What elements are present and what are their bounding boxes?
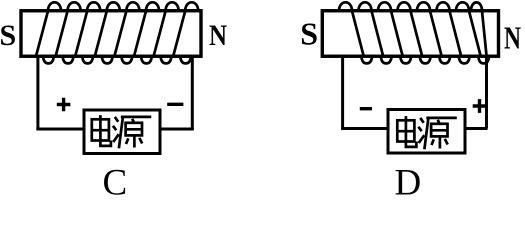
solenoid C core bar <box>21 11 201 57</box>
coil D turn 8 <box>471 2 487 55</box>
plus terminal C <box>57 98 71 112</box>
power supply label 电源 (D) <box>397 116 457 149</box>
coil C turn 3 <box>75 2 100 63</box>
power supply box D <box>388 110 465 154</box>
wire: C bottom left segment <box>36 128 84 131</box>
coil D turn 6 <box>437 2 470 63</box>
svg-text:N: N <box>209 19 227 52</box>
svg-text:D: D <box>395 163 422 197</box>
源 <box>115 117 118 122</box>
pole label N (left magnet) <box>209 19 227 52</box>
svg-text:C: C <box>102 163 127 197</box>
coil C turn 4 <box>95 2 120 63</box>
svg-text:S: S <box>0 19 16 52</box>
coil D turn 7 <box>456 2 489 63</box>
plus terminal D <box>473 99 487 113</box>
coil C turn 6 <box>134 2 159 63</box>
coil D turn 2 <box>359 2 392 63</box>
svg-text:N: N <box>504 20 521 56</box>
power supply box C <box>84 110 160 154</box>
wire: C left lead <box>36 56 39 130</box>
wire: D bottom right segment <box>465 127 488 130</box>
pole label S (left magnet) <box>0 19 16 52</box>
svg-text:S: S <box>300 16 318 52</box>
wire: D left lead <box>341 56 344 129</box>
coil D turn 3 <box>378 2 411 63</box>
wire: C bottom right segment <box>160 128 194 131</box>
wire: C right lead <box>191 56 194 130</box>
answer label D <box>395 163 422 204</box>
coil C turn 1 <box>36 2 61 63</box>
coil C turn 2 <box>56 2 81 63</box>
pole label N (right magnet) <box>504 20 521 56</box>
coil D turn 1 <box>339 2 372 63</box>
minus terminal C <box>167 103 183 106</box>
minus terminal D <box>360 107 372 110</box>
coil C turn 8 <box>173 2 198 63</box>
solenoid D core bar <box>322 11 498 57</box>
coil C turn 7 <box>154 2 179 63</box>
pole label S (right magnet) <box>300 16 318 52</box>
wire: D bottom left segment <box>341 127 388 130</box>
coil D turn 4 <box>398 2 431 63</box>
coil C turn 5 <box>115 2 140 63</box>
coil D turn 5 <box>417 2 450 63</box>
answer label C <box>102 163 127 204</box>
wire: D right lead <box>485 56 488 129</box>
电 <box>92 119 109 140</box>
power supply label 电源 (C) <box>92 115 152 148</box>
